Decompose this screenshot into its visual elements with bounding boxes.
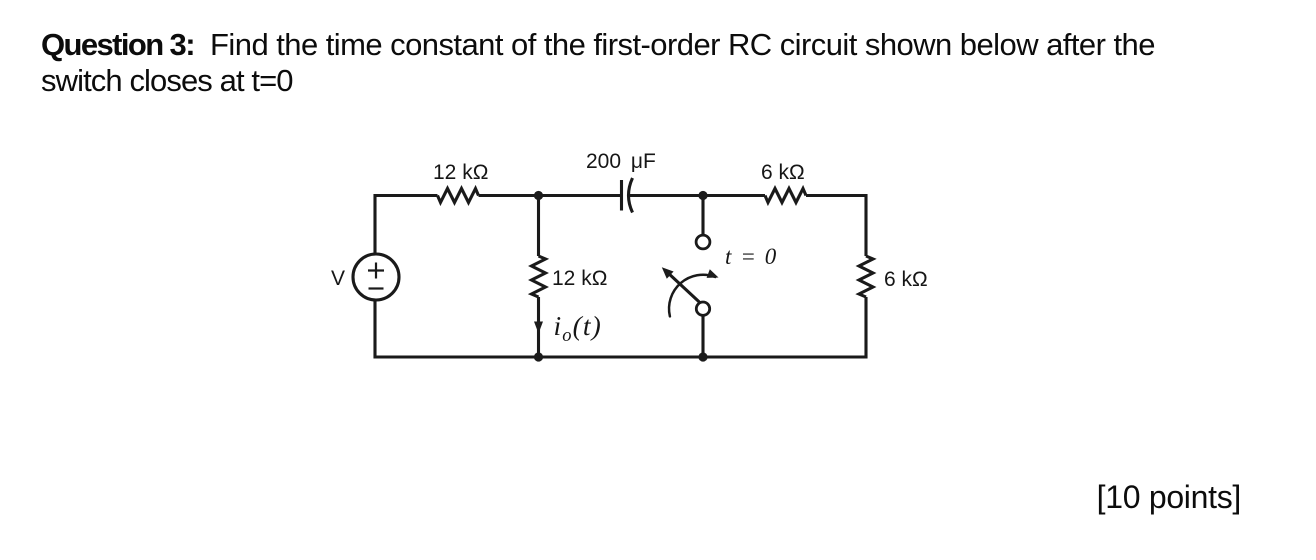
switch blade	[667, 272, 700, 303]
switch terminal circle bottom	[696, 302, 709, 315]
arrowhead switch blade	[662, 267, 674, 279]
wire top segment left with top-left corner	[375, 196, 438, 255]
wire bottom rail with both lower corners	[375, 297, 866, 357]
wire middle branch upper	[537, 196, 540, 257]
capacitor C1 right curved plate	[629, 178, 633, 213]
junction dot bottom-right node	[698, 352, 707, 361]
wire top segment between C1 and R2	[629, 194, 766, 197]
resistor R1 12k top-left zigzag	[438, 189, 479, 203]
capacitor C1 left plate	[620, 180, 623, 211]
resistor R2 6k top-right zigzag	[765, 189, 806, 203]
svg-text:t = 0: t = 0	[725, 244, 778, 269]
wire top segment between R1 and C1	[479, 194, 622, 197]
voltage source plus sign	[368, 263, 384, 279]
arrowhead switch motion arc	[707, 269, 719, 278]
svg-text:200 μF: 200 μF	[586, 150, 656, 173]
junction dot bottom-left node	[534, 352, 543, 361]
points label	[1097, 479, 1241, 516]
arrowhead io current arrow	[534, 322, 543, 334]
svg-text:12 kΩ: 12 kΩ	[552, 267, 607, 290]
svg-text:12 kΩ: 12 kΩ	[433, 161, 488, 184]
resistor R3 12k middle vertical zigzag	[532, 256, 546, 297]
svg-text:io(t): io(t)	[554, 310, 602, 346]
wire middle branch lower	[537, 297, 540, 357]
junction dot top-right node	[698, 191, 707, 200]
switch terminal circle top	[696, 235, 710, 249]
voltage source minus sign	[369, 287, 384, 289]
wire switch top stub	[701, 196, 704, 236]
wire switch bottom stub	[701, 316, 704, 357]
resistor R4 6k right vertical zigzag	[859, 256, 873, 297]
switch motion arc	[669, 275, 715, 317]
question title text	[41, 27, 1155, 99]
svg-text:V: V	[331, 267, 345, 290]
junction dot top-left node	[534, 191, 543, 200]
wire top segment right with top-right corner	[806, 196, 866, 257]
svg-text:6 kΩ: 6 kΩ	[761, 161, 805, 184]
svg-text:6 kΩ: 6 kΩ	[884, 268, 928, 291]
voltage source V1 circle	[353, 254, 399, 300]
